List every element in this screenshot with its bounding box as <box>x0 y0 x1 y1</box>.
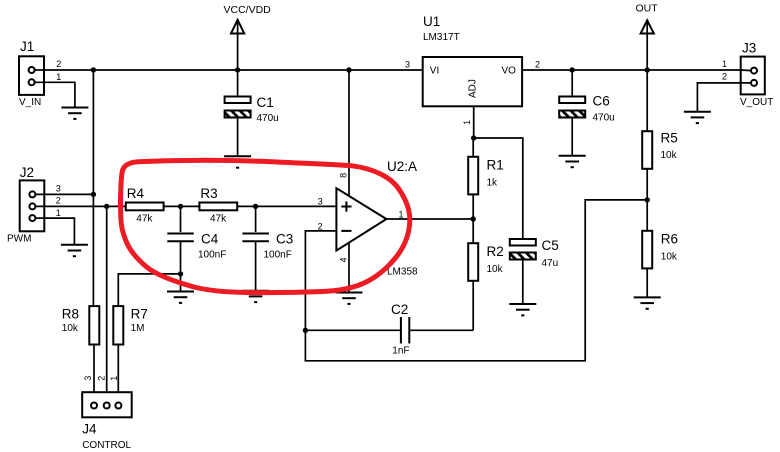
power VCC/VDD <box>224 4 272 70</box>
resistor R2 <box>468 219 504 330</box>
svg-text:47k: 47k <box>136 214 153 225</box>
ground (C3) <box>242 291 269 302</box>
wire J1 pin1 to ground <box>35 82 75 107</box>
svg-text:V_OUT: V_OUT <box>740 97 773 108</box>
resistor R7 <box>113 274 180 392</box>
svg-text:C3: C3 <box>276 232 293 247</box>
wire op-amp pin8 from bus <box>348 70 350 197</box>
wire op-amp pin4 to ground <box>348 243 350 293</box>
svg-text:PWM: PWM <box>7 234 31 245</box>
node J2 pin2 / J4 branch <box>104 204 109 209</box>
node bus/VCC <box>235 67 240 72</box>
svg-text:C4: C4 <box>201 232 219 247</box>
node ADJ/R1/C5 <box>471 135 476 140</box>
svg-text:470u: 470u <box>257 113 279 124</box>
resistor R5 <box>642 70 678 200</box>
svg-text:10k: 10k <box>487 264 504 275</box>
svg-text:J2: J2 <box>20 165 34 180</box>
svg-text:2: 2 <box>56 195 61 205</box>
node R5/R6/feedback <box>645 197 650 202</box>
svg-text:47u: 47u <box>542 258 559 269</box>
svg-text:V_IN: V_IN <box>19 97 41 108</box>
svg-text:3: 3 <box>318 197 323 207</box>
regulator U1 LM317T <box>405 14 540 125</box>
svg-text:2: 2 <box>56 59 61 69</box>
svg-text:C2: C2 <box>391 302 408 317</box>
svg-text:C6: C6 <box>593 94 610 109</box>
svg-text:C1: C1 <box>257 95 274 110</box>
capacitor C6 <box>559 70 615 156</box>
svg-text:10k: 10k <box>62 323 79 334</box>
svg-text:8: 8 <box>338 173 348 178</box>
wire ADJ node to C5 <box>474 138 523 239</box>
svg-text:R6: R6 <box>661 232 678 247</box>
svg-text:R3: R3 <box>200 186 217 201</box>
svg-text:1k: 1k <box>487 178 499 189</box>
svg-text:R2: R2 <box>487 244 504 259</box>
svg-text:VI: VI <box>430 66 439 77</box>
svg-text:1: 1 <box>56 208 61 218</box>
svg-text:R8: R8 <box>62 307 79 322</box>
connector J4 <box>82 376 132 451</box>
ground (C1) <box>224 156 251 167</box>
svg-text:470u: 470u <box>593 113 615 124</box>
resistor R3 <box>199 186 336 225</box>
svg-text:2: 2 <box>318 222 323 232</box>
svg-text:VCC/VDD: VCC/VDD <box>224 4 272 16</box>
wire J2 pin2 to R4 <box>35 205 125 207</box>
svg-text:1: 1 <box>722 59 727 69</box>
ground (C6) <box>559 156 586 167</box>
op-amp U2:A <box>318 159 418 278</box>
svg-text:100nF: 100nF <box>264 250 292 261</box>
svg-text:47k: 47k <box>210 214 227 225</box>
resistor R1 <box>468 138 504 219</box>
svg-text:ADJ: ADJ <box>468 79 479 98</box>
ground (C5) <box>509 304 536 315</box>
svg-text:R4: R4 <box>127 186 145 201</box>
power OUT arrow <box>636 3 659 71</box>
ground (R6) <box>634 297 661 308</box>
ground (C4) <box>167 292 194 303</box>
svg-text:J1: J1 <box>20 39 34 54</box>
svg-text:C5: C5 <box>542 238 559 253</box>
wire U1 ADJ pin <box>473 106 475 138</box>
capacitor C1 <box>225 70 279 156</box>
svg-text:1nF: 1nF <box>392 346 409 357</box>
wire op-amp output to R1/R2 node <box>386 218 473 220</box>
svg-text:1: 1 <box>56 72 61 82</box>
wire op-amp inverting input <box>305 231 336 330</box>
svg-text:J3: J3 <box>742 41 756 56</box>
wire vertical bus-to-R8 <box>92 70 94 306</box>
node R3/C3 <box>253 204 258 209</box>
svg-text:1M: 1M <box>131 323 145 334</box>
wire J3 pin2 to ground <box>697 83 751 112</box>
resistor R4 <box>126 186 200 225</box>
connector J3 <box>722 41 773 109</box>
node C2 / inverting input <box>303 328 308 333</box>
capacitor C3 <box>242 206 293 290</box>
svg-text:R5: R5 <box>661 131 678 146</box>
svg-text:R7: R7 <box>131 307 148 322</box>
node C4/R7 <box>178 271 183 276</box>
svg-text:10k: 10k <box>661 150 678 161</box>
svg-text:3: 3 <box>405 60 410 70</box>
svg-text:LM317T: LM317T <box>423 32 460 43</box>
capacitor C4 <box>167 206 226 291</box>
capacitor C2 <box>305 302 473 357</box>
red annotation loop <box>120 160 409 292</box>
resistor R6 <box>642 200 678 297</box>
svg-text:3: 3 <box>56 183 61 193</box>
svg-text:2: 2 <box>722 72 727 82</box>
svg-text:100nF: 100nF <box>198 250 226 261</box>
svg-text:CONTROL: CONTROL <box>82 440 131 451</box>
svg-text:1: 1 <box>109 376 119 381</box>
ground (J3) <box>684 112 711 123</box>
svg-text:4: 4 <box>338 257 348 262</box>
wire top bus right segment <box>522 69 741 71</box>
ground (J1) <box>61 108 88 119</box>
node bus/op-amp pin8 <box>346 67 351 72</box>
node bus/J2 branch <box>91 67 96 72</box>
node bus/OUT <box>645 67 650 72</box>
resistor R8 <box>62 306 100 392</box>
node R1/R2/op-amp output <box>471 216 476 221</box>
svg-text:J4: J4 <box>82 422 97 437</box>
wire J2 pin1 to ground <box>35 218 74 244</box>
node R4/C4 <box>178 204 183 209</box>
capacitor C5 <box>510 238 559 304</box>
svg-text:OUT: OUT <box>636 3 659 15</box>
ground (J2) <box>61 245 88 256</box>
svg-text:3: 3 <box>83 376 93 381</box>
svg-text:VO: VO <box>502 66 517 77</box>
node bus/C6 <box>570 67 575 72</box>
wire J2 pin2 down to J4 <box>106 206 108 392</box>
wire top bus left segment <box>44 69 423 71</box>
svg-text:1: 1 <box>399 210 404 220</box>
wire feedback R5/R6 node to bottom <box>305 200 647 361</box>
svg-text:2: 2 <box>96 376 106 381</box>
svg-text:1: 1 <box>462 120 472 125</box>
ground (op-amp pin4) <box>336 293 363 304</box>
svg-text:U1: U1 <box>423 14 440 29</box>
svg-text:U2:A: U2:A <box>387 159 417 174</box>
node J2 pin3 branch <box>91 192 96 197</box>
wire J2 pin3 to vertical branch <box>35 193 93 195</box>
connector J1 <box>19 39 61 108</box>
svg-text:R1: R1 <box>487 158 504 173</box>
connector J2 <box>7 165 61 245</box>
svg-text:2: 2 <box>535 60 540 70</box>
svg-text:LM358: LM358 <box>387 267 418 278</box>
svg-text:10k: 10k <box>661 252 678 263</box>
